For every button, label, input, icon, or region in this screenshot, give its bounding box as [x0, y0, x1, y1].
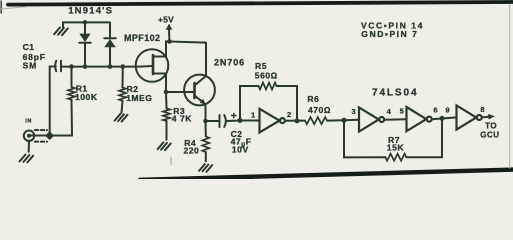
ground R3: [158, 142, 171, 150]
node top-rail junction: [83, 20, 88, 25]
svg-text:8: 8: [480, 105, 485, 114]
svg-text:220: 220: [184, 146, 200, 156]
resistor R6: [305, 117, 344, 124]
label R4: [184, 138, 200, 156]
node R7 left: [342, 118, 347, 123]
border left remnant: [0, 1, 2, 13]
wire source to base: [166, 82, 195, 93]
svg-text:GCU: GCU: [480, 131, 499, 140]
ground R2: [115, 114, 128, 122]
svg-text:MPF102: MPF102: [124, 33, 160, 43]
svg-text:1MEG: 1MEG: [126, 93, 152, 103]
label TO GCU: [480, 122, 499, 140]
label R5: [255, 61, 278, 80]
svg-text:100K: 100K: [75, 92, 98, 102]
svg-text:2: 2: [287, 110, 292, 119]
svg-text:2N706: 2N706: [214, 57, 245, 67]
inverter U1c: [407, 107, 432, 131]
svg-text:4 7K: 4 7K: [172, 113, 192, 123]
svg-text:3: 3: [352, 107, 357, 116]
transistor Q2 2N706 NPN: [184, 75, 215, 121]
node emitter junction: [203, 119, 208, 124]
node R5 right: [295, 118, 300, 123]
wire +5V rail to collector: [205, 43, 207, 76]
node R1 top: [69, 64, 74, 69]
wire inverter1 out: [285, 120, 305, 122]
svg-text:IN: IN: [25, 118, 32, 124]
label R6: [307, 94, 331, 115]
svg-text:1: 1: [251, 110, 256, 119]
svg-text:4: 4: [387, 107, 392, 116]
node +5V tap: [167, 39, 172, 44]
svg-text:6: 6: [433, 106, 438, 115]
svg-text:GND▪PIN 7: GND▪PIN 7: [361, 29, 418, 39]
wire inverter3 out: [432, 117, 456, 119]
wire output with arrow: [482, 114, 495, 120]
node source junction: [164, 90, 169, 95]
resistor R3: [163, 92, 170, 140]
resistor R1: [68, 67, 75, 136]
diode D1 (1N914, cathode down): [79, 22, 90, 66]
node R7 right: [440, 116, 445, 121]
node D1-rail: [83, 64, 88, 69]
wire to inverter 2: [344, 119, 359, 121]
label R1: [75, 84, 98, 102]
inverter U1d: [457, 105, 482, 129]
svg-text:15K: 15K: [387, 143, 405, 153]
border top: [8, 2, 513, 5]
wire top rail to ground: [63, 22, 110, 28]
inverter U1a: [260, 109, 285, 133]
svg-text:74LS04: 74LS04: [372, 88, 418, 99]
svg-text:R6: R6: [307, 94, 319, 104]
power +5V arrow: [166, 24, 173, 42]
resistor R7 feedback: [344, 118, 442, 160]
resistor R2: [119, 67, 126, 113]
node input junction: [45, 131, 54, 140]
scratch artifact below R3 ground: [170, 158, 172, 165]
label R3: [172, 106, 192, 124]
label R2: [126, 84, 152, 103]
connector J1 input jack: [24, 130, 47, 142]
svg-text:470Ω: 470Ω: [308, 105, 331, 115]
wire inverter2 out: [385, 118, 407, 121]
svg-text:SM: SM: [23, 61, 37, 71]
wire IN shield down: [28, 141, 30, 152]
node R5 left: [238, 118, 243, 123]
border bottom: [140, 170, 513, 180]
node D2-rail: [108, 64, 113, 69]
node R2 top: [121, 64, 126, 69]
ground IN: [20, 155, 34, 163]
svg-text:10V: 10V: [232, 145, 249, 155]
svg-text:560Ω: 560Ω: [255, 70, 278, 80]
ground top-left: [54, 27, 68, 35]
label C2 plus: [232, 113, 236, 117]
diode D2 (1N914, cathode up): [104, 22, 115, 66]
transistor Q1 MPF102 JFET: [136, 49, 169, 82]
svg-text:TO: TO: [485, 122, 497, 131]
svg-text:C1: C1: [23, 42, 35, 52]
resistor R5: [240, 83, 297, 122]
label R7: [387, 135, 405, 153]
label C2 value: [231, 129, 252, 155]
wire C2 to inverter 1: [227, 120, 260, 123]
wire drain to +5V rail: [166, 41, 206, 49]
svg-text:9: 9: [445, 106, 450, 115]
label C1 value: [23, 42, 46, 71]
svg-text:1N914'S: 1N914'S: [68, 5, 113, 16]
scratch artifact top-left: [0, 7, 28, 9]
wire C1 left to input node: [50, 67, 56, 136]
wire emitter to C2: [206, 120, 220, 122]
ground R4: [199, 164, 212, 172]
capacitor C2: [220, 115, 226, 127]
svg-text:5: 5: [400, 107, 405, 116]
wire IN center to R1 bottom: [31, 135, 72, 137]
inverter U1b: [359, 107, 384, 131]
resistor R4: [202, 121, 209, 161]
capacitor C1: [55, 61, 61, 71]
label VCC GND pins: [361, 20, 424, 39]
border right (faint): [509, 5, 511, 168]
wire signal rail C1 to gate: [61, 65, 152, 68]
svg-text:+5V: +5V: [158, 14, 174, 24]
